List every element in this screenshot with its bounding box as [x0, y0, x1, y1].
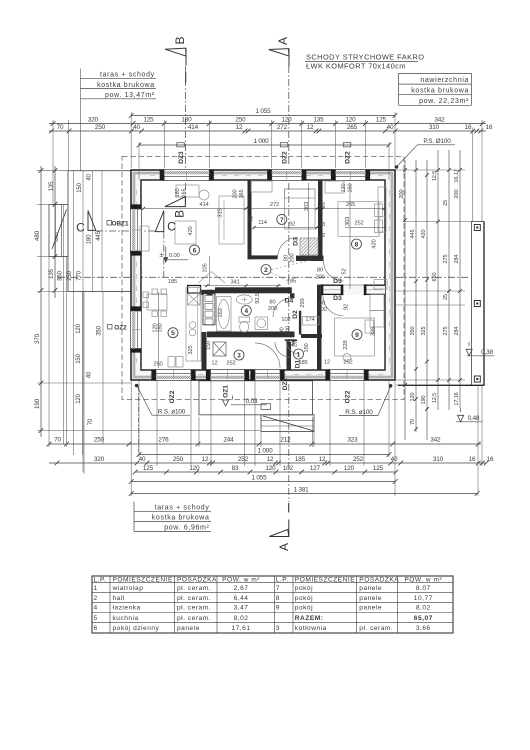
svg-text:4: 4 — [94, 605, 98, 612]
svg-text:2,67: 2,67 — [234, 585, 249, 592]
svg-text:12: 12 — [202, 456, 209, 463]
svg-text:A: A — [277, 543, 291, 551]
svg-text:POW. w m²: POW. w m² — [404, 577, 442, 584]
svg-text:pokój: pokój — [295, 605, 313, 612]
svg-text:200: 200 — [290, 253, 296, 262]
svg-text:D2: D2 — [292, 310, 299, 319]
svg-text:nawierzchnia: nawierzchnia — [420, 77, 469, 84]
svg-text:125: 125 — [143, 465, 154, 472]
svg-text:1 055: 1 055 — [255, 108, 271, 115]
svg-text:120: 120 — [410, 393, 416, 402]
svg-text:pokój dzienny: pokój dzienny — [113, 625, 160, 632]
svg-text:90: 90 — [280, 327, 286, 333]
svg-text:92,5: 92,5 — [255, 293, 261, 304]
svg-text:16: 16 — [465, 124, 472, 131]
svg-text:174: 174 — [305, 317, 315, 323]
svg-text:150: 150 — [304, 343, 310, 352]
svg-text:17,61: 17,61 — [231, 625, 250, 632]
svg-text:kostka brukowa: kostka brukowa — [152, 514, 210, 521]
svg-text:420: 420 — [421, 230, 427, 239]
svg-text:250: 250 — [67, 270, 73, 280]
svg-text:52: 52 — [342, 268, 348, 274]
svg-text:92: 92 — [344, 304, 350, 310]
svg-text:350: 350 — [410, 327, 416, 336]
svg-text:320: 320 — [94, 456, 105, 463]
svg-text:3,66: 3,66 — [416, 625, 431, 632]
svg-text:40: 40 — [139, 456, 146, 463]
svg-text:12: 12 — [211, 361, 217, 367]
svg-text:12,5: 12,5 — [432, 171, 438, 181]
svg-text:POMIESZCZENIE: POMIESZCZENIE — [113, 577, 173, 584]
svg-text:R.S. ø100: R.S. ø100 — [158, 408, 186, 415]
svg-text:293: 293 — [300, 298, 306, 307]
svg-text:kostka brukowa: kostka brukowa — [411, 87, 469, 94]
svg-text:303: 303 — [304, 202, 310, 211]
svg-text:pow. 13,47m²: pow. 13,47m² — [105, 92, 155, 99]
svg-text:pł. ceram.: pł. ceram. — [177, 595, 211, 602]
svg-text:350: 350 — [97, 325, 103, 335]
svg-text:275: 275 — [443, 255, 449, 264]
svg-text:80: 80 — [269, 300, 275, 306]
svg-text:244: 244 — [223, 437, 234, 444]
svg-text:200: 200 — [286, 326, 292, 335]
svg-text:D3: D3 — [293, 237, 300, 246]
svg-text:165: 165 — [239, 190, 245, 199]
svg-text:ŁWK KOMFORT 70x140cm: ŁWK KOMFORT 70x140cm — [306, 62, 406, 71]
svg-text:R.S. ø100: R.S. ø100 — [345, 409, 373, 416]
svg-text:650: 650 — [432, 273, 438, 282]
svg-text:276: 276 — [158, 437, 169, 444]
svg-text:92: 92 — [289, 222, 295, 228]
svg-text:252: 252 — [226, 361, 235, 367]
svg-text:420: 420 — [188, 226, 194, 235]
svg-text:0.00: 0.00 — [169, 253, 180, 259]
svg-text:10,77: 10,77 — [414, 595, 433, 602]
svg-text:1 381: 1 381 — [293, 486, 309, 493]
svg-text:200: 200 — [315, 275, 324, 281]
svg-text:420: 420 — [372, 239, 378, 248]
svg-text:1: 1 — [297, 351, 301, 358]
svg-text:8: 8 — [355, 241, 359, 248]
svg-text:80: 80 — [317, 268, 323, 274]
svg-text:120: 120 — [281, 116, 292, 123]
svg-text:kotłownia: kotłownia — [295, 625, 327, 632]
svg-text:252: 252 — [343, 360, 352, 366]
svg-text:150: 150 — [347, 184, 353, 193]
svg-text:250: 250 — [95, 124, 106, 131]
svg-text:200: 200 — [454, 190, 460, 199]
svg-text:200: 200 — [399, 190, 405, 199]
svg-text:165: 165 — [181, 189, 187, 198]
svg-text:16: 16 — [469, 456, 476, 463]
svg-text:25: 25 — [443, 294, 449, 300]
svg-text:8: 8 — [276, 595, 280, 602]
svg-text:16,17: 16,17 — [454, 169, 460, 182]
svg-text:228: 228 — [343, 340, 349, 349]
svg-text:1 000: 1 000 — [253, 138, 269, 145]
svg-text:125: 125 — [376, 116, 387, 123]
svg-text:83: 83 — [232, 465, 239, 472]
svg-text:342: 342 — [434, 116, 445, 123]
svg-text:DZ1: DZ1 — [282, 377, 289, 390]
svg-text:120: 120 — [76, 393, 82, 403]
svg-text:252: 252 — [354, 221, 363, 227]
svg-text:OZ1: OZ1 — [222, 385, 229, 398]
svg-text:102: 102 — [283, 465, 294, 472]
svg-text:272: 272 — [277, 124, 288, 131]
svg-text:180: 180 — [87, 234, 93, 244]
svg-text:150: 150 — [206, 341, 212, 350]
svg-text:200: 200 — [268, 306, 277, 312]
svg-text:265: 265 — [346, 202, 355, 208]
svg-text:414: 414 — [188, 124, 199, 131]
svg-text:250: 250 — [235, 116, 246, 123]
svg-text:RAZEM:: RAZEM: — [295, 615, 324, 622]
svg-text:135: 135 — [48, 268, 55, 279]
svg-text:180: 180 — [175, 189, 181, 198]
svg-text:40: 40 — [387, 124, 394, 131]
svg-text:DZ2: DZ2 — [344, 151, 351, 164]
svg-text:284: 284 — [454, 327, 460, 336]
svg-text:315: 315 — [218, 208, 224, 217]
svg-text:135: 135 — [48, 181, 55, 192]
svg-text:POSADZKA: POSADZKA — [359, 577, 399, 584]
svg-text:1 055: 1 055 — [251, 474, 267, 481]
svg-text:wiatrołap: wiatrołap — [112, 585, 144, 592]
svg-text:185: 185 — [298, 360, 307, 366]
svg-text:70: 70 — [57, 124, 64, 131]
svg-text:102: 102 — [281, 317, 290, 323]
svg-text:770: 770 — [77, 270, 83, 280]
svg-text:2: 2 — [94, 595, 98, 602]
svg-text:5: 5 — [171, 330, 175, 337]
svg-text:272: 272 — [270, 202, 279, 208]
svg-text:180: 180 — [181, 116, 192, 123]
svg-text:120: 120 — [341, 184, 347, 193]
svg-text:120: 120 — [265, 465, 276, 472]
svg-text:9: 9 — [355, 332, 359, 339]
svg-text:265: 265 — [347, 124, 358, 131]
svg-text:3: 3 — [276, 625, 280, 632]
svg-text:16: 16 — [486, 124, 493, 131]
svg-text:POSADZKA: POSADZKA — [177, 577, 217, 584]
svg-text:L.P.: L.P. — [94, 577, 107, 584]
svg-text:185: 185 — [287, 279, 296, 285]
svg-text:12: 12 — [267, 456, 274, 463]
svg-text:212: 212 — [280, 437, 291, 444]
svg-text:1 000: 1 000 — [257, 447, 273, 454]
svg-text:850: 850 — [58, 270, 64, 280]
svg-text:panele: panele — [359, 605, 382, 612]
svg-text:0,03: 0,03 — [246, 398, 258, 405]
svg-text:105: 105 — [203, 263, 209, 272]
svg-text:8,02: 8,02 — [234, 615, 249, 622]
svg-text:B: B — [173, 36, 187, 44]
svg-text:252: 252 — [353, 456, 364, 463]
svg-text:L.P.: L.P. — [276, 577, 289, 584]
svg-text:C: C — [167, 220, 176, 234]
svg-text:pokój: pokój — [295, 595, 313, 602]
svg-text:12: 12 — [247, 217, 253, 223]
svg-text:20: 20 — [293, 341, 299, 347]
svg-text:325: 325 — [371, 327, 377, 336]
svg-text:0,38: 0,38 — [481, 349, 493, 356]
svg-text:190: 190 — [421, 396, 427, 405]
svg-text:370: 370 — [34, 333, 41, 344]
svg-text:414: 414 — [199, 202, 209, 208]
svg-text:kuchnia: kuchnia — [113, 615, 139, 622]
svg-text:190: 190 — [34, 398, 41, 409]
svg-text:POMIESZCZENIE: POMIESZCZENIE — [295, 577, 355, 584]
svg-text:9: 9 — [276, 605, 280, 612]
svg-text:OZ2: OZ2 — [344, 390, 351, 403]
svg-text:0,48: 0,48 — [468, 415, 480, 422]
svg-text:A: A — [276, 37, 290, 45]
svg-text:185: 185 — [295, 456, 306, 463]
svg-text:12: 12 — [307, 124, 314, 131]
svg-text:310: 310 — [433, 456, 444, 463]
svg-text:taras + schody: taras + schody — [155, 504, 210, 511]
svg-text:12: 12 — [319, 456, 326, 463]
svg-text:pow. 22,23m²: pow. 22,23m² — [419, 98, 469, 105]
svg-text:7: 7 — [276, 585, 280, 592]
svg-text:150: 150 — [77, 182, 83, 192]
svg-text:OZ2: OZ2 — [114, 325, 127, 332]
svg-text:SCHODY STRYCHOWE FAKRO: SCHODY STRYCHOWE FAKRO — [306, 52, 424, 61]
svg-text:OBZ1: OBZ1 — [111, 220, 128, 227]
svg-text:pł. ceram.: pł. ceram. — [177, 615, 211, 622]
svg-text:panele: panele — [359, 585, 382, 592]
svg-text:kostka brukowa: kostka brukowa — [97, 82, 155, 89]
svg-text:D3: D3 — [333, 278, 342, 285]
svg-text:łazienka: łazienka — [113, 605, 141, 612]
svg-text:POW. w m²: POW. w m² — [222, 577, 260, 584]
svg-text:200: 200 — [317, 307, 326, 313]
svg-text:4: 4 — [244, 308, 248, 315]
svg-text:40: 40 — [391, 456, 398, 463]
svg-text:445: 445 — [410, 230, 416, 239]
svg-text:taras + schody: taras + schody — [100, 72, 155, 79]
svg-text:±: ± — [159, 252, 163, 259]
svg-text:163: 163 — [218, 308, 224, 317]
svg-text:1: 1 — [94, 585, 98, 592]
svg-text:8,02: 8,02 — [416, 605, 431, 612]
svg-text:8,07: 8,07 — [416, 585, 431, 592]
svg-text:185: 185 — [168, 279, 177, 285]
svg-text:12: 12 — [236, 124, 243, 131]
svg-text:pł. ceram.: pł. ceram. — [177, 585, 211, 592]
svg-text:C: C — [76, 220, 85, 234]
svg-text:200: 200 — [233, 190, 239, 199]
svg-text:341: 341 — [230, 279, 239, 285]
svg-text:40: 40 — [87, 371, 93, 378]
svg-text:80: 80 — [284, 255, 290, 261]
svg-text:D3: D3 — [333, 295, 342, 302]
svg-text:7: 7 — [280, 217, 284, 224]
svg-text:127: 127 — [310, 465, 321, 472]
svg-text:70: 70 — [410, 419, 416, 425]
svg-text:16: 16 — [487, 456, 494, 463]
svg-text:5: 5 — [94, 615, 98, 622]
svg-text:2: 2 — [264, 267, 268, 274]
svg-text:pow. 6,96m²: pow. 6,96m² — [164, 524, 209, 531]
svg-text:12: 12 — [324, 360, 330, 366]
svg-text:6,44: 6,44 — [234, 595, 249, 602]
svg-text:6: 6 — [94, 625, 98, 632]
svg-text:B: B — [172, 210, 186, 218]
svg-text:3,47: 3,47 — [234, 605, 249, 612]
svg-text:80: 80 — [319, 301, 325, 307]
svg-text:320: 320 — [88, 116, 99, 123]
svg-text:120: 120 — [345, 116, 356, 123]
svg-text:17,16: 17,16 — [454, 392, 460, 405]
svg-text:13: 13 — [319, 222, 325, 228]
svg-text:325: 325 — [421, 327, 427, 336]
svg-text:250: 250 — [153, 362, 162, 368]
svg-text:150: 150 — [76, 353, 82, 363]
svg-text:D4: D4 — [285, 297, 294, 304]
svg-text:342: 342 — [430, 437, 441, 444]
svg-text:310: 310 — [429, 124, 440, 131]
svg-text:323: 323 — [347, 437, 358, 444]
svg-text:445: 445 — [96, 230, 102, 240]
svg-text:OZ2: OZ2 — [169, 390, 176, 403]
svg-text:hall: hall — [113, 595, 125, 602]
svg-text:120: 120 — [76, 323, 82, 333]
svg-text:325: 325 — [188, 345, 194, 354]
svg-text:panele: panele — [359, 595, 382, 602]
svg-text:284: 284 — [454, 255, 460, 264]
svg-text:12: 12 — [319, 233, 325, 239]
svg-text:65,07: 65,07 — [414, 615, 433, 622]
svg-text:3: 3 — [237, 352, 241, 359]
svg-text:70: 70 — [54, 437, 61, 444]
svg-text:pł. ceram.: pł. ceram. — [177, 605, 211, 612]
svg-text:125: 125 — [143, 116, 154, 123]
svg-text:pł. ceram.: pł. ceram. — [359, 625, 393, 632]
svg-text:70: 70 — [88, 418, 94, 425]
svg-text:250: 250 — [173, 456, 184, 463]
svg-text:6: 6 — [193, 247, 197, 254]
svg-text:275: 275 — [443, 327, 449, 336]
svg-text:40: 40 — [87, 174, 93, 181]
svg-text:480: 480 — [34, 230, 41, 241]
svg-text:panele: panele — [177, 625, 200, 632]
svg-text:P.S. Ø100: P.S. Ø100 — [423, 138, 451, 145]
svg-text:120: 120 — [344, 465, 355, 472]
svg-text:125: 125 — [373, 465, 384, 472]
svg-text:114: 114 — [258, 220, 268, 226]
svg-text:12,5: 12,5 — [432, 393, 438, 403]
svg-text:DZ3: DZ3 — [178, 151, 185, 164]
svg-text:40: 40 — [133, 124, 140, 131]
svg-text:DZ2: DZ2 — [281, 151, 288, 164]
svg-text:252: 252 — [238, 456, 249, 463]
svg-text:135: 135 — [313, 116, 324, 123]
svg-text:25: 25 — [443, 200, 449, 206]
svg-text:pokój: pokój — [295, 585, 313, 592]
